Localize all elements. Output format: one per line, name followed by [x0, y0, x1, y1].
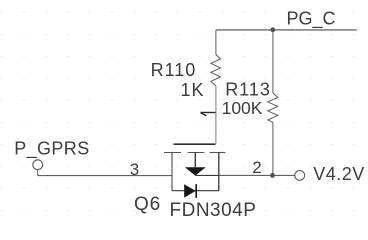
gate bar	[174, 143, 216, 145]
body to source link	[195, 174, 219, 176]
wire: pin 2 to V4.2V	[219, 174, 295, 176]
pin 1 gate pin marker	[201, 113, 216, 116]
wire: rail corner down to R110	[215, 30, 217, 55]
junction dot at PG_C rail / R113	[270, 27, 275, 32]
wire: PG_C horizontal rail	[216, 29, 357, 31]
wire: R113 bottom to node	[272, 122, 274, 175]
svg-text:100K: 100K	[222, 98, 263, 118]
svg-text:V4.2V: V4.2V	[313, 164, 365, 184]
channel segment middle	[188, 152, 205, 154]
drain lead (right vertical)	[218, 153, 220, 191]
junction dot at pin 2 / R113	[270, 173, 275, 178]
svg-text:PG_C: PG_C	[287, 9, 336, 30]
body diode triangle	[184, 184, 196, 197]
svg-text:R110: R110	[151, 60, 197, 80]
transistor Q6 FDN304P	[164, 144, 225, 198]
channel segment right	[210, 152, 226, 154]
bottom rail of symbol	[172, 190, 219, 192]
svg-text:3: 3	[130, 160, 139, 179]
body stem	[194, 153, 196, 168]
body diode cathode bar	[195, 184, 197, 198]
port V4.2V	[295, 171, 305, 181]
svg-text:FDN304P: FDN304P	[170, 200, 257, 221]
svg-text:Q6: Q6	[134, 194, 161, 215]
port P_GPRS	[33, 160, 43, 170]
grid dots (decorative)	[1, 12, 354, 211]
channel segment left	[164, 152, 181, 154]
wire: pin 3 to port	[38, 175, 172, 177]
wire: R113 top	[272, 30, 274, 93]
wire: port stub down	[37, 170, 39, 176]
resistor R113	[268, 93, 278, 123]
svg-text:P_GPRS: P_GPRS	[14, 139, 89, 160]
svg-text:R113: R113	[225, 80, 271, 100]
source lead (left vertical)	[171, 153, 173, 191]
svg-text:1K: 1K	[181, 80, 205, 100]
body arrow	[185, 167, 206, 175]
svg-text:2: 2	[252, 158, 261, 177]
resistor R110	[211, 54, 221, 86]
wire: R110 bottom to gate	[215, 86, 217, 144]
